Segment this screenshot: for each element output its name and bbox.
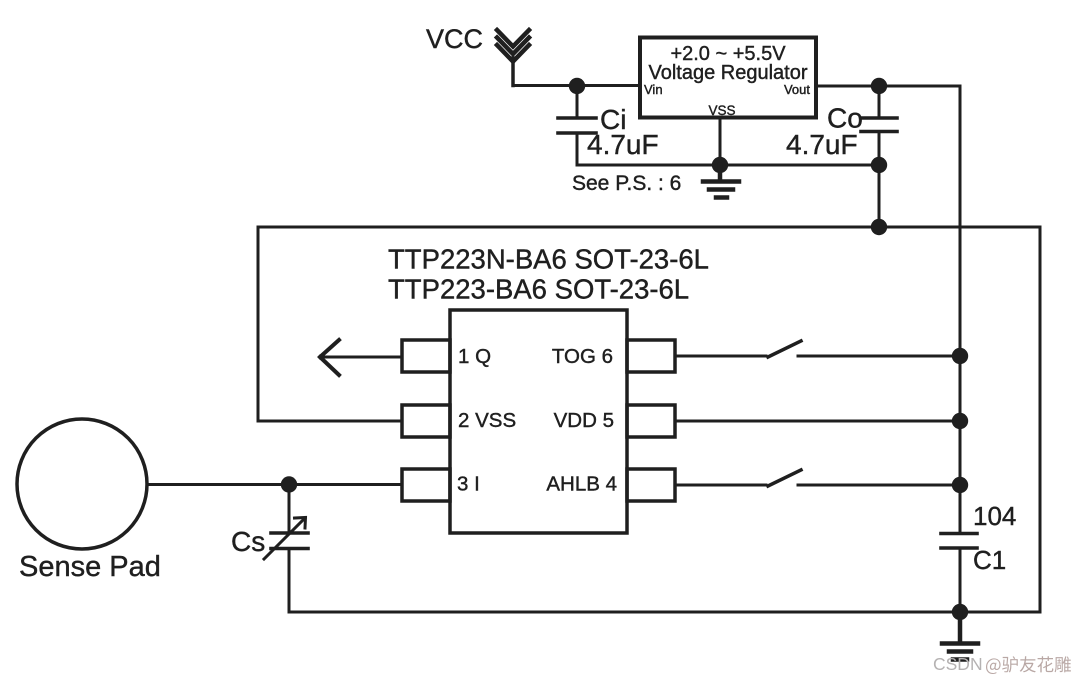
wire sense pad to pin 3 I [147,483,402,486]
label Sense Pad [19,551,161,583]
wire switch to VDD rail (TOG) [798,355,960,358]
IC U1 TTP223 body [450,310,627,533]
svg-text:VSS: VSS [708,103,735,118]
pin box 5 VDD [627,405,675,437]
pin label VDD 5 [554,409,614,432]
junction node TOG-rail [952,348,968,364]
wire VDD pin to rail [675,420,960,423]
pin box 3 I [402,469,450,501]
switch S2 (AHLB) blade [768,470,801,486]
title label TTP223-BA6 SOT-23-6L [388,274,689,305]
capacitor C1 [941,534,977,613]
voltage regulator U2 [640,38,816,118]
label C1 [973,545,1006,575]
junction node Co bottom [871,157,887,173]
pin label 3 I [457,473,480,496]
wire TOG to switch [675,355,766,358]
svg-text:VDD 5: VDD 5 [554,409,614,432]
wire AHLB to switch [675,484,766,487]
wire VSS loop right rail [1039,227,1042,612]
capacitor Cs (variable) [271,485,308,613]
label Cs [231,526,265,557]
svg-text:AHLB 4: AHLB 4 [546,473,617,496]
svg-text:3 I: 3 I [457,473,480,496]
pin box 6 TOG [627,340,675,372]
svg-text:VCC: VCC [426,24,483,54]
wire VCC to Vin [513,84,640,87]
svg-text:TTP223-BA6 SOT-23-6L: TTP223-BA6 SOT-23-6L [388,274,689,305]
pin label 2 VSS [458,409,516,432]
wire VSS loop left rail [257,227,260,421]
wire VDD rail vertical [959,86,962,534]
pin label TOG 6 [552,345,613,368]
junction node VSS loop top [871,219,887,235]
title label TTP223N-BA6 SOT-23-6L [388,244,709,275]
output arrow on Q [320,340,339,375]
switch S1 (TOG) blade [768,341,801,357]
svg-text:104: 104 [973,501,1016,531]
sense pad electrode [17,419,147,549]
wire VSS loop top [258,226,1040,229]
watermark CSDN @驴友花雕 [933,654,1071,674]
ground (bottom right) [942,612,978,660]
variable arrow of Cs [264,518,306,560]
junction node Co top [871,78,887,94]
net label VCC [426,24,483,54]
svg-text:TTP223N-BA6 SOT-23-6L: TTP223N-BA6 SOT-23-6L [388,244,709,275]
svg-text:Voltage Regulator: Voltage Regulator [648,62,807,84]
svg-text:Cs: Cs [231,526,265,557]
junction node Ci top [569,78,585,94]
pin box 4 AHLB [627,469,675,501]
value label 4.7uF (Ci) [587,129,659,160]
label Ci [600,104,626,135]
note See P.S. : 6 [572,172,681,195]
svg-text:CSDN: CSDN [933,654,983,674]
pin label AHLB 4 [546,473,617,496]
svg-text:4.7uF: 4.7uF [786,129,858,160]
svg-text:1 Q: 1 Q [458,345,491,368]
svg-text:2 VSS: 2 VSS [458,409,516,432]
wire Ci bottom to Co bottom (VSS net) [577,164,879,167]
svg-text:4.7uF: 4.7uF [587,129,659,160]
power symbol VCC (triple chevron) [497,30,529,86]
capacitor Co [861,86,897,227]
junction node C1 bottom [952,604,968,620]
wire bottom ground net [289,611,1040,614]
ground (below regulator VSS) [703,165,739,198]
junction node Cs top [281,476,297,492]
junction node VSS [712,157,728,173]
label Co [827,103,863,134]
pin box 2 VSS [402,405,450,437]
svg-text:Vin: Vin [644,82,663,97]
svg-text:Sense Pad: Sense Pad [19,551,161,583]
value label 4.7uF (Co) [786,129,858,160]
capacitor Ci [558,86,596,165]
wire pin2 VSS [258,420,402,423]
pin label 1 Q [458,345,491,368]
value label 104 [973,501,1016,531]
pin box 1 Q [402,340,450,372]
junction node VDD-rail [952,413,968,429]
junction node AHLB-rail [952,477,968,493]
wire switch to VDD rail (AHLB) [798,484,960,487]
wire Q output [324,356,402,359]
wire Vout to right rail [816,85,960,88]
pin wire VSS of regulator [719,118,722,166]
svg-text:Vout: Vout [784,82,810,97]
svg-text:C1: C1 [973,545,1006,575]
svg-text:TOG 6: TOG 6 [552,345,613,368]
svg-text:See P.S. : 6: See P.S. : 6 [572,172,681,195]
